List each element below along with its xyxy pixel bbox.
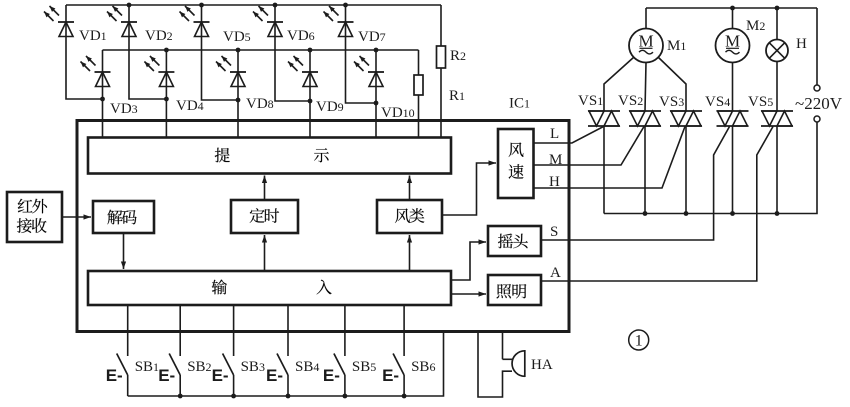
node common rail junction at VS2 — [643, 211, 648, 216]
wire output S to VS4 gate — [541, 127, 730, 241]
triac VS5 — [761, 111, 793, 126]
node top rail junction at VD7 — [343, 3, 348, 8]
svg-text:VD10: VD10 — [381, 105, 415, 121]
node switch rail junction at SB5 — [343, 394, 348, 399]
node second rail junction at VD10 — [374, 48, 379, 53]
node M2 top — [730, 6, 735, 11]
svg-text:1: 1 — [635, 333, 643, 350]
svg-text:SB5: SB5 — [352, 359, 376, 375]
node H top — [775, 6, 780, 11]
wire VD9 column — [309, 50, 311, 138]
svg-text:R2: R2 — [450, 48, 466, 64]
wire VS1 bottom — [603, 126, 605, 214]
LED VD2 — [107, 6, 137, 37]
LED VD1 — [44, 6, 74, 37]
pushbutton switch SB3 — [223, 305, 234, 396]
svg-text:VD3: VD3 — [110, 101, 138, 117]
pushbutton switch SB1 — [117, 305, 128, 396]
wire R1 column — [418, 50, 420, 138]
triac VS1 — [588, 111, 620, 126]
svg-text:VS2: VS2 — [618, 93, 643, 109]
svg-text:SB6: SB6 — [411, 359, 435, 375]
wire VD7 column — [346, 5, 377, 103]
LED VD10 — [354, 56, 384, 87]
block 风类 (wind type) — [377, 200, 442, 233]
svg-text:E-: E- — [323, 366, 340, 385]
node cathode join at VD10 — [374, 101, 379, 106]
block 解码 (decode) — [93, 201, 154, 233]
svg-text:~220V: ~220V — [795, 94, 843, 113]
svg-text:VD1: VD1 — [79, 28, 107, 44]
wire VD2 column — [129, 5, 166, 99]
svg-text:VD9: VD9 — [316, 99, 344, 115]
wire second rail — [103, 49, 419, 51]
svg-text:S: S — [550, 224, 558, 240]
wire input to lighting arrow — [451, 291, 486, 296]
wire input to timer arrow — [262, 235, 267, 271]
pushbutton switch SB2 — [169, 305, 180, 396]
wire windtype to windspeed arrow — [442, 160, 496, 215]
triac VS2 — [629, 111, 661, 126]
svg-text:SB4: SB4 — [295, 359, 319, 375]
wire output A to VS5 gate — [541, 127, 773, 282]
wire input to windtype arrow — [407, 235, 412, 271]
wire output L to VS1 gate — [534, 127, 604, 144]
svg-text:M1: M1 — [667, 38, 686, 54]
block 照明 (lighting) — [488, 275, 541, 305]
node common rail junction at VS3 — [684, 211, 689, 216]
resistor R1 — [414, 75, 423, 95]
buzzer HA — [478, 332, 525, 398]
wire output H to VS3 gate — [534, 127, 686, 189]
wire windtype to prompt arrow — [407, 176, 412, 201]
svg-text:E-: E- — [106, 366, 123, 385]
svg-text:M: M — [725, 32, 740, 51]
node cathode join at VD4 — [164, 97, 169, 102]
node top rail junction at VD6 — [273, 3, 278, 8]
resistor R2 — [437, 46, 446, 68]
IC U1 (IC1 outline) — [77, 121, 569, 332]
wire VS4 bottom — [732, 126, 734, 214]
motor M2 — [716, 29, 750, 63]
node second rail junction at VD8 — [236, 48, 241, 53]
wire VS3 bottom — [685, 126, 687, 214]
svg-text:VS4: VS4 — [705, 94, 730, 110]
svg-text:E-: E- — [158, 366, 175, 385]
wire VD4 column — [165, 50, 167, 138]
svg-text:VD5: VD5 — [223, 29, 251, 45]
wire R2 column — [440, 5, 442, 138]
svg-text:SB2: SB2 — [187, 359, 211, 375]
wire IR receiver to decoder arrow — [62, 214, 91, 219]
node switch rail junction at SB4 — [286, 394, 291, 399]
svg-text:SB1: SB1 — [135, 359, 159, 375]
node switch rail junction at SB6 — [402, 394, 407, 399]
node second rail junction at VD9 — [308, 48, 313, 53]
svg-text:A: A — [550, 265, 561, 281]
block 摇头 (oscillate) — [488, 226, 541, 256]
wire H top lead — [776, 8, 778, 40]
node second rail junction at VD4 — [164, 48, 169, 53]
svg-text:H: H — [549, 174, 560, 190]
block 红外接收 (IR receiver) — [7, 192, 62, 242]
svg-text:VD4: VD4 — [176, 98, 204, 114]
LED VD5 — [180, 6, 210, 37]
pushbutton switch SB4 — [277, 305, 288, 396]
node cathode join at VD3 — [100, 97, 105, 102]
node top rail junction at VD5 — [199, 3, 204, 8]
wire M2 to VS4 — [732, 63, 734, 112]
wire M2 top lead — [732, 8, 734, 29]
wire 220V feed — [816, 8, 818, 85]
wire VD3 column — [102, 50, 104, 138]
wire M1 to VS3 — [658, 57, 686, 111]
svg-text:VD7: VD7 — [358, 29, 386, 45]
lamp H — [766, 40, 788, 62]
wire VD10 column — [375, 50, 377, 138]
svg-text:E-: E- — [382, 366, 399, 385]
node common rail junction at VS5 — [775, 211, 780, 216]
svg-text:E-: E- — [212, 366, 229, 385]
svg-text:E-: E- — [266, 366, 283, 385]
wire top rail — [66, 4, 441, 6]
wire H to VS5 — [776, 62, 778, 112]
pushbutton switch SB5 — [334, 305, 345, 396]
node top rail junction at VD2 — [127, 3, 132, 8]
motor M1 — [629, 29, 663, 63]
wire right top rail — [646, 7, 817, 9]
node common rail junction at VS4 — [730, 211, 735, 216]
node switch rail junction at SB3 — [231, 394, 236, 399]
wire VS2 bottom — [644, 126, 646, 214]
svg-text:VD6: VD6 — [287, 28, 315, 44]
svg-text:H: H — [796, 36, 807, 52]
wire VS5 bottom — [776, 126, 778, 214]
wire VD8 column — [237, 50, 239, 138]
wire M1 to VS1 — [604, 57, 634, 111]
svg-text:M: M — [549, 152, 562, 168]
terminal 220V upper — [814, 85, 820, 91]
LED VD9 — [288, 56, 318, 87]
figure number 1 — [629, 330, 649, 350]
svg-text:L: L — [550, 126, 559, 142]
node cathode join at VD8 — [236, 98, 241, 103]
svg-text:VD8: VD8 — [246, 96, 274, 112]
LED VD3 — [81, 56, 111, 87]
svg-text:M: M — [638, 32, 653, 51]
svg-text:R1: R1 — [449, 88, 465, 104]
wire output M to VS2 gate — [534, 127, 645, 166]
wire VD5 column — [202, 5, 239, 100]
wire VD6 column — [275, 5, 310, 101]
wire decoder to input arrow — [121, 233, 126, 269]
wire VD1 column — [66, 5, 103, 99]
svg-text:M2: M2 — [746, 18, 765, 34]
block 定时 (timer) — [231, 200, 298, 233]
svg-text:VS1: VS1 — [578, 93, 603, 109]
block 输入 (input) — [88, 271, 451, 305]
node cathode join at VD9 — [308, 99, 313, 104]
pushbutton switch SB6 — [393, 305, 404, 396]
svg-text:VD2: VD2 — [145, 28, 173, 44]
wire input to oscillate arrow — [451, 239, 486, 280]
block 提示 (prompt) — [88, 138, 451, 174]
triac VS4 — [717, 111, 749, 126]
LED VD8 — [216, 56, 246, 87]
svg-text:VS3: VS3 — [659, 94, 684, 110]
wire triac common rail — [604, 122, 817, 214]
triac VS3 — [670, 111, 702, 126]
node switch rail junction at SB2 — [178, 394, 183, 399]
wire switch common rail — [128, 332, 444, 397]
svg-text:SB3: SB3 — [241, 359, 265, 375]
LED VD4 — [144, 56, 174, 87]
svg-text:VS5: VS5 — [748, 94, 773, 110]
LED VD7 — [324, 6, 354, 37]
wire timer to prompt arrow — [262, 176, 267, 201]
wire M1 to VS2 — [645, 63, 646, 112]
svg-text:HA: HA — [531, 357, 553, 373]
block 风速 (wind speed) — [498, 129, 534, 198]
wire M1 top lead — [645, 8, 647, 29]
terminal 220V lower — [814, 116, 820, 122]
LED VD6 — [253, 6, 283, 37]
svg-text:IC1: IC1 — [509, 96, 530, 112]
